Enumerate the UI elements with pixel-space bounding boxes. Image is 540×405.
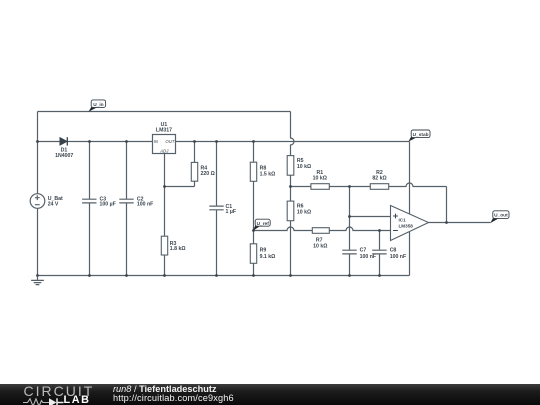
wire ground bottom rail bbox=[38, 275, 410, 277]
wire ADJ to R4 bottom bbox=[165, 181, 195, 186]
wire R2 to feedback corner with hop bbox=[389, 183, 447, 186]
regulator U1 LM317 bbox=[153, 135, 176, 154]
svg-text:10 kΩ: 10 kΩ bbox=[313, 244, 327, 250]
junction dots ground rail bbox=[36, 274, 39, 277]
resistor R2 bbox=[370, 184, 388, 190]
svg-text:LM317: LM317 bbox=[156, 128, 172, 134]
svg-text:U_ref: U_ref bbox=[257, 221, 270, 227]
svg-text:82 kΩ: 82 kΩ bbox=[372, 176, 386, 182]
svg-text:R8: R8 bbox=[260, 166, 267, 172]
ground symbol bbox=[31, 276, 44, 285]
resistor R5 bbox=[287, 156, 294, 176]
wire U_stab vertical to op-amp V+ bbox=[409, 142, 411, 215]
flag U_in bbox=[89, 100, 106, 112]
svg-text:IC1: IC1 bbox=[399, 218, 407, 223]
diode D1 bbox=[60, 137, 67, 145]
wire R3 branch bbox=[164, 187, 166, 276]
resistor R9 bbox=[250, 244, 256, 263]
wire C2 branch bbox=[126, 142, 128, 276]
flag U_ref bbox=[253, 219, 270, 230]
svg-text:C8: C8 bbox=[390, 248, 397, 254]
wire C1 branch bbox=[216, 142, 218, 276]
svg-text:100 µF: 100 µF bbox=[100, 201, 116, 207]
wire R6 to ground bbox=[290, 221, 292, 276]
resistor R6 bbox=[287, 201, 294, 221]
svg-text:220 Ω: 220 Ω bbox=[201, 171, 215, 177]
junction dot U_ref node bbox=[252, 229, 255, 232]
resistor R3 bbox=[161, 236, 167, 255]
op-amp IC1 LM358 bbox=[391, 206, 429, 241]
capacitor C8 bbox=[372, 250, 386, 254]
svg-text:1.8 kΩ: 1.8 kΩ bbox=[170, 246, 186, 252]
wire U_ref to R7 with hop bbox=[254, 227, 313, 230]
svg-text:10 kΩ: 10 kΩ bbox=[297, 164, 311, 170]
resistor R7 bbox=[312, 228, 329, 234]
wire R7 to opamp minus with hop bbox=[329, 227, 390, 230]
resistor R1 bbox=[311, 184, 329, 190]
op-amp plus minus marks bbox=[393, 214, 398, 231]
wire R4 top bbox=[194, 142, 196, 163]
junction dot R1 R2 node bbox=[348, 185, 351, 188]
junction dot divider mid bbox=[289, 185, 292, 188]
wire R5 to R6 bbox=[290, 175, 292, 201]
svg-text:U_in: U_in bbox=[93, 102, 103, 108]
wire C8 branch bbox=[379, 231, 381, 276]
svg-text:R9: R9 bbox=[260, 248, 267, 254]
wire op-amp V- to ground rail bbox=[409, 232, 411, 276]
wire U_in top rail bbox=[38, 111, 291, 113]
svg-text:1.5 kΩ: 1.5 kΩ bbox=[260, 172, 276, 178]
battery labels bbox=[48, 196, 63, 208]
op-amp labels bbox=[399, 218, 414, 229]
wire main stab rail bbox=[38, 141, 410, 143]
diode labels bbox=[55, 148, 73, 160]
capacitor C2 bbox=[119, 199, 133, 203]
flag U_out bbox=[490, 211, 509, 223]
capacitor C7 bbox=[342, 250, 356, 254]
wire C3 branch bbox=[89, 142, 91, 276]
junction dot ADJ node bbox=[163, 185, 166, 188]
junction dot C8 minus node bbox=[378, 229, 381, 232]
svg-text:U_stab: U_stab bbox=[413, 132, 429, 138]
flag U_stab bbox=[408, 130, 430, 142]
wire op-amp output bbox=[429, 222, 491, 224]
wire feedback down to output bbox=[446, 187, 448, 223]
svg-text:100 nF: 100 nF bbox=[360, 254, 376, 260]
junction dot output feedback bbox=[445, 221, 448, 224]
wire plus input horizontal bbox=[350, 216, 391, 218]
wire R8 R9 divider bbox=[253, 142, 255, 276]
resistor R4 bbox=[191, 162, 197, 181]
capacitor C1 bbox=[209, 206, 223, 210]
circuitlab logo text bbox=[24, 384, 95, 398]
wire ADJ pin down bbox=[164, 154, 166, 187]
logo LAB text bbox=[64, 395, 91, 405]
svg-text:100 nF: 100 nF bbox=[137, 201, 153, 207]
svg-text:9.1 kΩ: 9.1 kΩ bbox=[260, 254, 276, 260]
svg-text:24 V: 24 V bbox=[48, 201, 59, 207]
footer url line bbox=[113, 394, 234, 404]
junction dot plus input bbox=[348, 215, 351, 218]
wire U_in drop to R5 with hop bbox=[291, 112, 295, 156]
wire R1 to R2 bbox=[329, 186, 370, 188]
junction dots stab rail bbox=[36, 140, 39, 143]
footer title line bbox=[113, 385, 217, 395]
svg-text:LM358: LM358 bbox=[399, 224, 414, 229]
svg-text:ADJ: ADJ bbox=[159, 149, 169, 154]
svg-text:10 kΩ: 10 kΩ bbox=[297, 210, 311, 216]
svg-text:10 kΩ: 10 kΩ bbox=[313, 176, 327, 182]
wire plus node vertical to C7 bbox=[349, 187, 351, 276]
svg-text:1 µF: 1 µF bbox=[226, 209, 236, 215]
svg-text:100 nF: 100 nF bbox=[390, 254, 406, 260]
svg-text:OUT: OUT bbox=[165, 139, 174, 144]
svg-text:C7: C7 bbox=[360, 248, 367, 254]
battery U_Bat bbox=[30, 194, 45, 209]
svg-text:1N4007: 1N4007 bbox=[55, 153, 73, 159]
wire left battery vertical bbox=[37, 112, 39, 276]
resistor R8 bbox=[250, 162, 256, 181]
wire divider mid to R1 bbox=[291, 186, 311, 188]
footer bar bbox=[0, 384, 540, 405]
circuitlab logo zigzag diode bbox=[22, 397, 94, 405]
svg-text:U_out: U_out bbox=[494, 213, 508, 219]
capacitor C3 bbox=[82, 199, 96, 203]
